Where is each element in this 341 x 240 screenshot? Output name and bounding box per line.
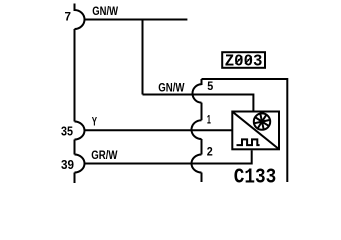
wire GN/W from branch to pin 5 and into sensor top	[143, 95, 254, 111]
wire GR/W from pin 39 to sensor bottom	[84, 150, 251, 163]
slash marks on Z003 zeros	[236, 56, 252, 64]
speed sensor square-wave symbol	[237, 139, 260, 145]
connector terminal 2 (C133 pin 2 bump)	[192, 155, 202, 173]
speed sensor component box	[232, 112, 279, 150]
svg-text:GR/W: GR/W	[91, 150, 117, 162]
connector terminal 39 (left connector pin 39 bump)	[75, 155, 85, 173]
speed sensor rotor spokes	[255, 114, 270, 129]
connector C133 outline: right edge	[286, 78, 288, 182]
svg-text:Z003: Z003	[225, 51, 263, 70]
svg-text:2: 2	[207, 147, 213, 159]
wire GN/W from pin 7 to branch end	[84, 19, 187, 21]
svg-text:7: 7	[65, 12, 72, 24]
connector terminal 5 (C133 pin 5 bump)	[192, 84, 201, 102]
connector C133 left edge segment pin1-pin2	[201, 139, 203, 155]
svg-text:Y: Y	[92, 117, 98, 129]
speed sensor diagonal	[233, 112, 278, 148]
wire: GN/W branch junction drop (vertical)	[142, 20, 144, 95]
wire: left connector body below pin 39	[74, 173, 76, 184]
Z003 label box	[222, 52, 265, 68]
connector terminal 35 (left connector pin 35 bump)	[75, 122, 85, 140]
svg-text:GN/W: GN/W	[158, 83, 184, 95]
connector terminal 1 (C133 pin 1 bump)	[192, 120, 202, 139]
wire: left connector body between pin 35 and pin 39	[74, 140, 76, 155]
connector terminal 7 (left connector pin 7 bump)	[75, 4, 85, 30]
connector C133 outline: top edge	[202, 78, 288, 80]
svg-text:1: 1	[207, 115, 211, 127]
svg-text:35: 35	[61, 124, 73, 138]
wire Y from pin 35 to sensor left	[84, 129, 231, 131]
svg-text:C133: C133	[234, 166, 276, 185]
connector C133 left edge segment above pin 5	[201, 79, 203, 85]
svg-text:39: 39	[61, 158, 74, 172]
speed sensor rotor circle	[254, 113, 270, 129]
svg-text:GN/W: GN/W	[92, 6, 118, 18]
svg-text:5: 5	[207, 81, 214, 93]
connector C133 left edge segment pin5-pin1	[201, 103, 203, 121]
wire: left connector body between pin 7 and pin 35	[74, 29, 76, 122]
connector C133 left edge segment below pin 2	[201, 173, 203, 183]
